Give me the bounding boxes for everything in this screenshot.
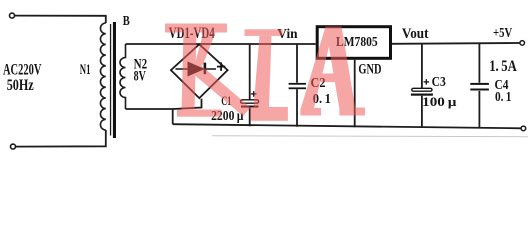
capacitor C3 top plate (hollow) [412, 88, 432, 91]
capacitor C1 leads [249, 44, 251, 126]
wire: AC input bottom lead [16, 130, 106, 147]
wire: AC input top lead [15, 16, 106, 23]
watermark letter K [165, 24, 251, 117]
svg-text:C3: C3 [432, 75, 446, 90]
capacitor C1 bottom plate [241, 106, 258, 108]
transformer core (thick bar) [113, 22, 116, 138]
svg-text:+5V: +5V [493, 26, 512, 41]
capacitor C4 plates [470, 83, 489, 85]
wire: bottom rail [173, 124, 521, 128]
svg-text:N1: N1 [80, 62, 91, 78]
capacitor C3 bottom plate [411, 94, 433, 96]
terminal: +5V return (bottom right) [521, 126, 526, 131]
capacitor C3 plus mark [424, 79, 430, 85]
svg-text:GND: GND [358, 61, 381, 77]
transformer secondary winding N2 [120, 44, 126, 109]
svg-text:50Hz: 50Hz [7, 77, 34, 94]
capacitor C2 plates [289, 83, 306, 85]
capacitor C1 plus mark [251, 91, 257, 97]
watermark letter A [300, 27, 365, 116]
capacitor C3 leads [421, 44, 423, 128]
wire: secondary bottom to bridge [126, 99, 202, 109]
wire: GND lead of regulator [354, 60, 356, 127]
svg-text:1. 5A: 1. 5A [489, 58, 517, 75]
capacitor C2 leads [296, 44, 298, 127]
svg-text:100 µ: 100 µ [422, 94, 457, 109]
transformer primary winding N1 [100, 23, 105, 130]
wire: top rail (regulator output to +5V) [392, 42, 520, 45]
svg-text:B: B [123, 13, 130, 28]
svg-text:0. 1: 0. 1 [495, 90, 512, 105]
regulator U1 LM7805 box [317, 27, 390, 59]
terminal: +5V output [520, 41, 525, 46]
watermark letter I [245, 29, 288, 121]
terminal: AC input bottom [11, 144, 16, 149]
bridge rectifier VD1-VD4 (diamond) [171, 44, 228, 98]
capacitor C1 top plate (hollow) [241, 100, 259, 103]
svg-text:Vout: Vout [402, 26, 429, 42]
wire: top rail (secondary to regulator input) [126, 43, 316, 45]
svg-text:8V: 8V [134, 69, 146, 85]
node: scan shadow line bottom [212, 136, 528, 137]
diode inside bridge [176, 62, 217, 75]
wire: junction branch down to bottom rail [172, 109, 174, 124]
svg-text:AC220V: AC220V [3, 62, 42, 79]
terminal: AC input top [10, 13, 15, 18]
capacitor C4 leads [478, 44, 480, 128]
polarity plus inside bridge [217, 62, 225, 70]
transformer core (thin line) [110, 24, 111, 136]
